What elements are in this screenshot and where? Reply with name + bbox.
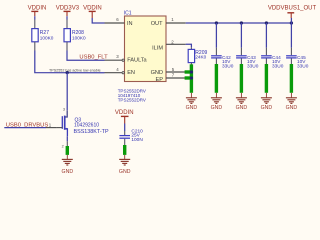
pin FAULTa 3 [105,54,148,63]
svg-text:OUT: OUT [151,21,163,27]
green wire C43-GND [240,64,243,93]
svg-text:ILIM: ILIM [152,45,163,51]
svg-text:GND: GND [186,105,198,111]
svg-text:GND: GND [119,169,131,175]
green wire C45-GND [290,64,293,93]
power flag VDDVBUS1_OUT [268,6,317,18]
pin GND wire green [185,70,192,73]
Q3 source to GND [66,136,68,141]
wire OUT net [186,22,292,24]
power flag VDD3V3 [56,6,80,17]
pin EP wire green [185,76,192,79]
capacitor C43 [236,23,259,69]
power flag VDDIN (third) [83,6,102,18]
svg-text:104292610: 104292610 [74,122,99,128]
svg-text:VDDVBUS1_OUT: VDDVBUS1_OUT [268,6,317,12]
svg-text:100K0: 100K0 [40,36,54,41]
svg-text:GND: GND [151,70,163,76]
wire EN to Q3 drain [66,73,68,111]
pin EN 4 [105,67,135,76]
resistor R208 [64,16,86,50]
junction C42 [215,21,218,24]
svg-text:VDDIN: VDDIN [115,110,134,116]
svg-text:TPS2552 has active low enable: TPS2552 has active low enable [49,69,101,73]
net label USB0_FLT [79,55,108,61]
ground C44 [261,93,273,111]
junction EP [190,76,193,79]
junction EN/Q3 [66,71,69,74]
resistor R209 [188,47,207,64]
capacitor C210 [119,124,143,146]
ground C45 [286,93,298,111]
svg-text:EN: EN [127,70,135,76]
IC IC1 TPS2552DRV body [124,10,166,81]
green wire C44-GND [265,64,268,93]
svg-text:100K0: 100K0 [72,36,86,41]
junction GND [190,70,193,73]
svg-text:33U0: 33U0 [222,63,234,69]
svg-text:33U0: 33U0 [272,63,284,69]
capacitor C45 [286,23,309,69]
pin OUT 1 [151,17,186,27]
junction C43 [240,21,243,24]
capacitor C42 [211,23,234,69]
svg-text:GND: GND [62,169,74,175]
ground C210 [119,155,131,175]
ground symbol (R209 net) [186,93,198,111]
wire gate [46,127,57,129]
pin ILIM 2 [152,39,186,51]
resistor R27 [32,16,54,50]
pin EP 7 [156,73,186,83]
wire VDDIN to IN pin [92,18,104,23]
svg-text:GND: GND [236,105,248,111]
ground C42 [211,93,223,111]
svg-text:FAULTa: FAULTa [127,58,147,64]
pin GND 5 [151,67,186,76]
wire ILIM to R209 [186,44,192,47]
junction C45 [290,21,293,24]
svg-text:EP: EP [156,77,164,83]
transistor Q3 [57,110,68,136]
pin IN 6 [105,17,133,27]
capacitor C44 [261,23,284,69]
svg-text:100N: 100N [131,137,143,143]
wire EN net (R27 to pin4) [35,51,105,73]
svg-text:BSS138KT-TP: BSS138KT-TP [74,129,109,135]
ground Q3 [62,155,74,175]
svg-text:USB0_FLT: USB0_FLT [79,55,108,61]
ground C43 [236,93,248,111]
svg-text:GND: GND [286,105,298,111]
svg-text:IN: IN [127,21,133,27]
green wire C42-GND [215,64,218,93]
svg-text:24K0: 24K0 [195,55,206,60]
green GND net below R209 [190,64,193,93]
svg-text:GND: GND [261,105,273,111]
wire FLT net (R208 to pin3) [67,51,105,61]
svg-text:GND: GND [211,105,223,111]
junction C44 [265,21,268,24]
svg-text:33U0: 33U0 [247,63,259,69]
IC1 part labels [118,88,146,102]
power flag VDDIN (bottom) [115,110,134,123]
green wire C210-GND [123,145,126,155]
svg-text:2: 2 [62,145,64,149]
svg-text:3: 3 [63,108,65,112]
svg-text:IC1: IC1 [124,10,132,16]
power flag VDDIN (top-left) [28,6,47,17]
svg-text:TPS2552DRV: TPS2552DRV [118,98,146,103]
port USB0_DRVBUS [4,122,52,128]
svg-text:33U0: 33U0 [297,63,309,69]
